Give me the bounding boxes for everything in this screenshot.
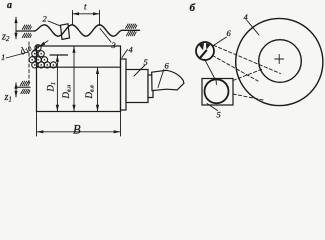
svg-text:5: 5 [217, 110, 221, 120]
svg-text:5: 5 [144, 57, 148, 67]
svg-text:Dв.в: Dв.в [84, 85, 96, 100]
svg-text:6: 6 [165, 61, 170, 71]
svg-text:B: B [73, 123, 81, 137]
svg-text:б: б [190, 2, 196, 14]
svg-text:D1: D1 [46, 82, 58, 93]
svg-text:4: 4 [129, 45, 134, 55]
svg-text:a: a [7, 0, 12, 11]
svg-text:z2: z2 [1, 32, 10, 44]
svg-text:4: 4 [244, 12, 249, 22]
svg-text:3: 3 [111, 40, 116, 50]
svg-text:t: t [84, 2, 87, 12]
svg-text:Dв.н: Dв.н [61, 85, 73, 100]
svg-text:1: 1 [1, 52, 5, 62]
svg-text:2: 2 [43, 14, 48, 24]
svg-text:z1: z1 [4, 92, 12, 104]
svg-text:6: 6 [227, 28, 232, 38]
